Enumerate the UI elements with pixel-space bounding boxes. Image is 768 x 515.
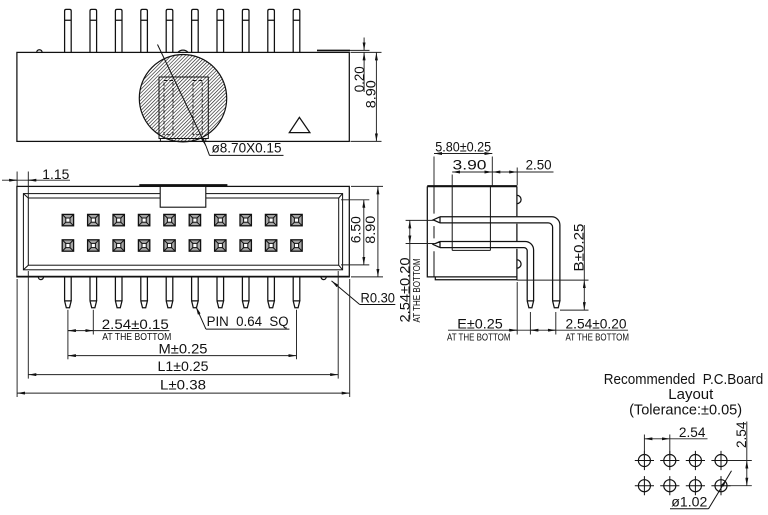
svg-text:5.80±0.25: 5.80±0.25	[435, 139, 491, 154]
svg-text:AT THE BOTTOM: AT THE BOTTOM	[447, 332, 511, 343]
svg-text:2.54±0.20: 2.54±0.20	[397, 258, 412, 323]
svg-text:R0.30: R0.30	[361, 291, 396, 306]
svg-text:2.54: 2.54	[734, 421, 749, 448]
dimension 0.20 (top lip)	[363, 38, 365, 51]
dimension 2.54±0.20 (row pitch, side view left)	[406, 219, 434, 221]
svg-text:8.90: 8.90	[363, 216, 378, 244]
svg-text:1.15: 1.15	[42, 167, 69, 182]
svg-text:Recommended P.C.Board: Recommended P.C.Board	[604, 372, 764, 388]
svg-text:PIN 0.64 SQ: PIN 0.64 SQ	[207, 314, 289, 329]
leader and label PIN 0.64 SQ	[196, 307, 206, 329]
top view: index triangle mark	[289, 117, 310, 132]
dimension 2.54±0.15 pin pitch	[67, 310, 69, 360]
top view: center key rectangle	[159, 77, 208, 139]
svg-text:AT THE BOTTOM: AT THE BOTTOM	[412, 259, 423, 323]
side view: body outline	[427, 186, 517, 279]
extension lines top right	[351, 51, 382, 53]
front view: corner chamfer diagonals	[23, 194, 342, 270]
svg-text:8.90: 8.90	[363, 80, 378, 108]
svg-text:ø8.70X0.15: ø8.70X0.15	[212, 141, 282, 156]
top view: 0.20 lip edge at right	[317, 49, 350, 51]
front view: standoff bumps on bottom edge	[38, 277, 326, 280]
leader and label R0.30 (corner radius)	[360, 304, 396, 306]
dimension 5.80±0.25 (body depth)	[433, 157, 435, 186]
svg-text:L1±0.25: L1±0.25	[158, 359, 209, 374]
dimension 1.15 (wall thickness)	[16, 172, 18, 187]
top view: 10 mating pins protruding up	[65, 9, 72, 52]
dimension 8.90 (front view height)	[351, 185, 383, 187]
pcb layout: 8 plated holes with crosshairs	[638, 455, 650, 467]
front view: thick rib on top edge	[139, 184, 227, 186]
svg-text:2.54±0.20: 2.54±0.20	[566, 317, 627, 332]
svg-text:L±0.38: L±0.38	[160, 377, 206, 392]
dimension M±0.25 (pin span)	[296, 310, 298, 360]
svg-text:2.50: 2.50	[526, 157, 552, 172]
side view: bosses on right face	[517, 195, 521, 268]
dimension 6.50 (cavity height)	[341, 199, 369, 201]
top view: connector body outline	[17, 52, 349, 141]
svg-text:Layout: Layout	[668, 387, 713, 403]
svg-text:2.54: 2.54	[679, 425, 706, 440]
side view: cavity profile lines	[452, 187, 490, 250]
svg-text:3.90: 3.90	[453, 157, 487, 172]
top view: hidden slot right (dashed)	[193, 81, 202, 135]
svg-text:2.54±0.15: 2.54±0.15	[102, 317, 169, 332]
svg-text:E±0.25: E±0.25	[457, 317, 503, 332]
side view: right edge (interrupted by pins)	[516, 186, 518, 277]
pcb dimension 2.54 vertical	[728, 460, 752, 462]
svg-text:B±0.25: B±0.25	[571, 224, 586, 272]
top view: hatched circular boss	[139, 54, 226, 141]
dimension L±0.38 (overall length)	[16, 279, 18, 397]
side view: upper right-angle pin	[433, 217, 560, 308]
front view: shroud outer outline	[17, 186, 349, 277]
dimension E±0.25 and 2.54±0.20 at bottom	[516, 282, 518, 335]
front view: polarization key notch at top center	[160, 186, 206, 207]
svg-text:AT THE BOTTOM: AT THE BOTTOM	[566, 332, 630, 343]
dimension 8.90 (top view height)	[375, 52, 377, 141]
pcb dimension 2.54 horizontal	[643, 435, 645, 460]
top view: hidden slot left (dashed)	[164, 81, 173, 135]
leader and label hole diameter 1.02	[670, 508, 709, 510]
side view: lower right-angle pin	[433, 242, 533, 308]
svg-text:ø1.02: ø1.02	[671, 495, 707, 510]
dimension L1±0.25	[27, 271, 29, 379]
dimension 2.50	[492, 171, 517, 173]
front view: cavity inner wall	[23, 194, 342, 270]
side view: left face step line (interrupted by pins)	[433, 187, 435, 277]
front view: 10 solder pins below	[65, 277, 72, 308]
svg-text:6.50: 6.50	[348, 216, 363, 243]
top view: small boss arc at top center	[178, 50, 188, 52]
leader for boss diameter callout	[158, 45, 207, 147]
top view: small boss on top edge left	[37, 50, 42, 53]
dimension 3.90	[451, 175, 453, 186]
svg-text:(Tolerance:±0.05): (Tolerance:±0.05)	[629, 402, 742, 418]
front view: cavity chamfer line	[28, 198, 338, 265]
front view: 20 square contacts (2 rows of 10)	[62, 214, 73, 225]
top view: key notch at bottom edge	[159, 139, 161, 142]
svg-text:M±0.25: M±0.25	[159, 341, 208, 356]
dimension B±0.25 (pin protrusion)	[517, 279, 589, 281]
